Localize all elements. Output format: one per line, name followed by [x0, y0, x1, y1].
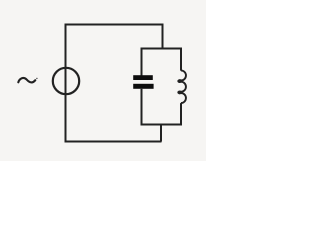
wire: capacitor branch lower lead: [141, 89, 143, 126]
wire: top horizontal: [65, 24, 163, 26]
wire: tank circuit bottom horizontal: [141, 124, 182, 126]
inductor L1 upper lead: [180, 48, 182, 71]
ink fleck near tilde end: [36, 78, 37, 79]
wire: capacitor branch upper lead: [141, 48, 143, 76]
inductor L1 lower lead: [180, 103, 182, 125]
AC source V1 circle: [53, 68, 79, 94]
wire: left vertical: [65, 24, 67, 142]
capacitor C1 top plate: [133, 75, 153, 80]
AC symbol tilde (~) label: [18, 78, 35, 82]
capacitor C1 bottom plate: [133, 84, 153, 89]
wire: vertical drop from tank bottom to bottom wire: [160, 125, 162, 142]
inductor L1 coil (3 humps): [178, 70, 186, 103]
wire: tank circuit top horizontal: [141, 48, 182, 50]
wire: right vertical drop from top wire to tank top: [162, 24, 164, 50]
wire: bottom horizontal: [65, 141, 162, 143]
